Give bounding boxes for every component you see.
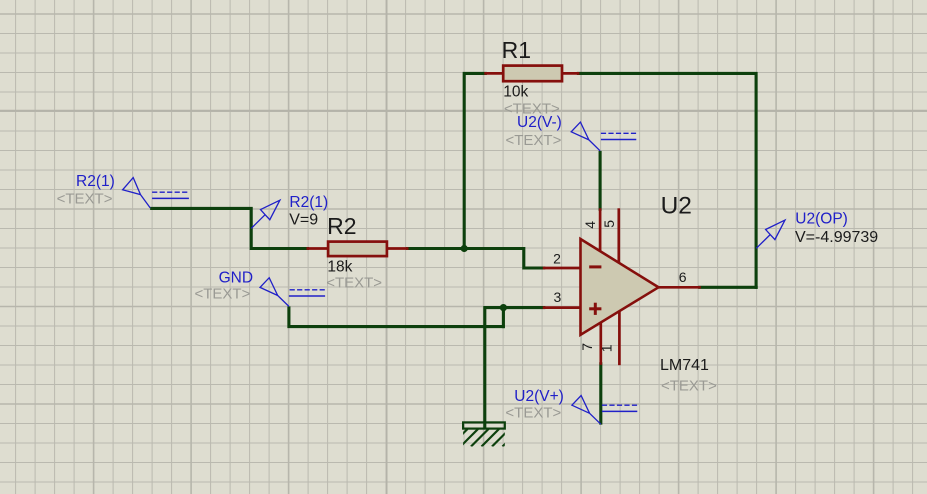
svg-text:<TEXT>: <TEXT> — [326, 274, 382, 291]
svg-text:7: 7 — [579, 343, 595, 351]
svg-text:LM741: LM741 — [660, 357, 709, 374]
svg-text:V=9: V=9 — [289, 211, 318, 228]
svg-text:U2(OP): U2(OP) — [795, 211, 848, 228]
svg-text:5: 5 — [601, 220, 617, 228]
svg-text:GND: GND — [219, 270, 253, 287]
svg-text:U2: U2 — [661, 193, 692, 220]
svg-text:R2(1): R2(1) — [76, 173, 115, 190]
svg-text:4: 4 — [582, 221, 598, 229]
svg-text:10k: 10k — [503, 83, 528, 100]
svg-text:V=-4.99739: V=-4.99739 — [795, 229, 878, 246]
svg-text:<TEXT>: <TEXT> — [195, 286, 251, 303]
svg-text:R2(1): R2(1) — [289, 194, 328, 211]
svg-text:R1: R1 — [502, 37, 531, 63]
svg-text:<TEXT>: <TEXT> — [505, 404, 561, 421]
svg-text:R2: R2 — [327, 213, 356, 239]
svg-text:3: 3 — [554, 289, 562, 305]
svg-text:2: 2 — [553, 251, 561, 267]
svg-text:U2(V+): U2(V+) — [514, 388, 564, 405]
svg-text:<TEXT>: <TEXT> — [504, 100, 560, 117]
svg-text:6: 6 — [679, 269, 687, 285]
svg-text:18k: 18k — [327, 259, 352, 276]
svg-text:<TEXT>: <TEXT> — [506, 132, 562, 149]
svg-text:<TEXT>: <TEXT> — [661, 377, 717, 394]
svg-text:1: 1 — [599, 344, 615, 352]
svg-text:<TEXT>: <TEXT> — [57, 191, 113, 208]
